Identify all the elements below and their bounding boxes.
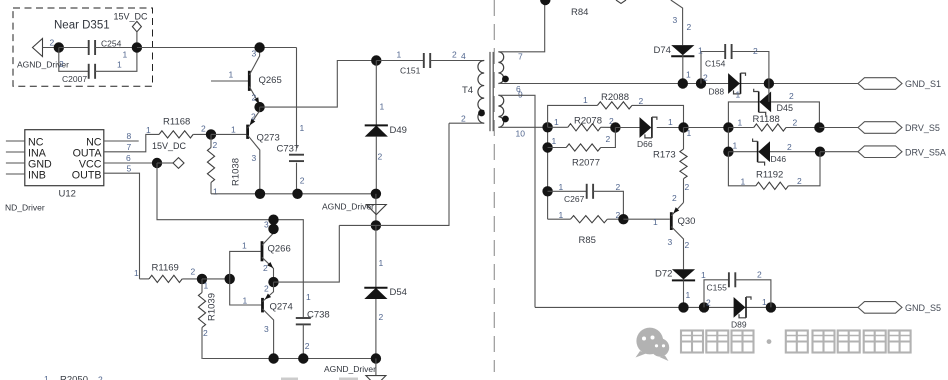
- svg-text:2: 2: [685, 182, 690, 192]
- svg-text:1: 1: [668, 117, 673, 127]
- wire to DRV_S5A port: [820, 151, 858, 153]
- svg-text:OUTB: OUTB: [72, 169, 102, 181]
- svg-text:2: 2: [251, 112, 256, 122]
- diode D88 zener: [709, 73, 746, 99]
- svg-text:C155: C155: [707, 283, 728, 293]
- capacitor C737: [277, 48, 305, 194]
- wire AGND rail upper: [211, 193, 376, 195]
- transistor Q30 PNP: [668, 193, 696, 269]
- svg-text:DRV_S5A: DRV_S5A: [905, 147, 946, 157]
- svg-text:2: 2: [191, 267, 196, 277]
- svg-text:R1169: R1169: [152, 263, 179, 274]
- wire T4 pin7 up: [498, 0, 544, 52]
- node Q266 collector (lower): [268, 224, 278, 234]
- svg-text:R1188: R1188: [753, 114, 780, 125]
- svg-text:1: 1: [686, 290, 691, 300]
- svg-text:D66: D66: [637, 139, 653, 149]
- diode D89 zener: [731, 297, 767, 330]
- node bus C267: [542, 182, 563, 197]
- node D46 row right: [815, 147, 825, 157]
- svg-text:C154: C154: [705, 59, 726, 69]
- svg-text:D45: D45: [777, 103, 794, 113]
- svg-text:R1039: R1039: [207, 293, 218, 321]
- ground AGND_Driver (in box): [17, 39, 69, 70]
- svg-text:1: 1: [397, 50, 402, 60]
- port GND_S5: [858, 302, 941, 314]
- isolation dashed line: [493, 0, 495, 372]
- diode D74: [654, 45, 695, 84]
- wire T4 pin9 to GND_S5 bus: [498, 95, 535, 307]
- svg-text:2: 2: [461, 113, 466, 123]
- svg-text:ND_Driver: ND_Driver: [5, 203, 45, 213]
- svg-text:1: 1: [379, 258, 384, 268]
- port DRV_S5A: [858, 146, 946, 158]
- svg-text:Q273: Q273: [257, 133, 280, 144]
- capacitor C254: [59, 39, 137, 60]
- node C155 pin1 on rail: [699, 298, 711, 313]
- wire emitters to C151 node: [260, 61, 377, 108]
- svg-text:D89: D89: [731, 320, 747, 330]
- capacitor C267: [548, 182, 624, 219]
- svg-text:1: 1: [583, 95, 588, 105]
- svg-text:U12: U12: [59, 189, 76, 200]
- svg-text:1: 1: [231, 125, 236, 135]
- svg-text:2: 2: [203, 328, 208, 338]
- svg-text:2: 2: [378, 152, 383, 162]
- svg-text:1: 1: [762, 297, 767, 307]
- svg-text:D88: D88: [709, 87, 725, 97]
- svg-text:3: 3: [673, 15, 678, 25]
- resistor R1188: [728, 114, 819, 131]
- svg-text:2: 2: [757, 270, 762, 280]
- node C154 pin2 on rail: [696, 73, 708, 89]
- resistor R1039: [198, 279, 217, 359]
- svg-text:1: 1: [686, 70, 691, 80]
- capacitor C738: [296, 292, 330, 359]
- resistor R2088: [548, 92, 684, 128]
- svg-text:R2077: R2077: [572, 158, 600, 169]
- transistor Q273 PNP: [211, 107, 280, 194]
- svg-text:R1038: R1038: [231, 158, 242, 186]
- svg-text:Q265: Q265: [259, 75, 282, 86]
- svg-text:2: 2: [379, 312, 384, 322]
- svg-text:3: 3: [264, 220, 269, 230]
- wire AGND to C254: [43, 47, 59, 49]
- svg-text:R2088: R2088: [601, 92, 629, 103]
- svg-text:1: 1: [653, 217, 658, 227]
- node D66/R173/R2088 junction: [678, 122, 688, 132]
- wire DRV row to R1188: [684, 127, 729, 129]
- svg-text:1: 1: [380, 102, 385, 112]
- svg-text:2: 2: [606, 134, 611, 144]
- svg-text:1: 1: [242, 241, 247, 251]
- node 15V rail junction: [132, 42, 142, 52]
- node base junction Q265/Q273: [206, 129, 218, 150]
- svg-text:Q274: Q274: [270, 302, 293, 313]
- svg-text:1: 1: [698, 46, 703, 56]
- svg-text:2: 2: [789, 91, 794, 101]
- svg-text:T4: T4: [462, 85, 473, 96]
- svg-text:D54: D54: [390, 287, 407, 298]
- node bus pin10/R2078: [542, 117, 559, 133]
- wire T4 pin2 lead: [449, 122, 484, 124]
- resistor R84 (cut off): [571, 0, 692, 45]
- transistor Q274 PNP: [243, 282, 293, 358]
- svg-text:2: 2: [213, 140, 218, 150]
- svg-text:2: 2: [685, 240, 690, 250]
- svg-text:R173: R173: [653, 150, 676, 161]
- svg-text:4: 4: [461, 51, 466, 61]
- node R84 pin (top edge): [540, 0, 550, 5]
- node D49 anode on AGND: [371, 189, 381, 199]
- svg-text:GND_S1: GND_S1: [905, 79, 941, 89]
- capacitor C151: [376, 50, 484, 76]
- wire 15V top rail: [137, 47, 297, 49]
- resistor R2050 (cut off): [44, 374, 103, 380]
- node D54 anode bottom: [371, 353, 381, 363]
- svg-text:1: 1: [213, 187, 218, 197]
- node Q266 collector (upper): [268, 215, 278, 225]
- power 15V_DC (mid): [152, 141, 187, 168]
- transistor Q266 NPN: [242, 220, 291, 283]
- svg-text:2: 2: [59, 59, 64, 69]
- wire GND_S5 rail: [535, 306, 858, 308]
- diode D72: [655, 269, 695, 308]
- svg-text:C267: C267: [564, 194, 585, 204]
- svg-text:3: 3: [668, 237, 673, 247]
- resistor R1192: [728, 152, 820, 190]
- svg-text:1: 1: [243, 295, 248, 305]
- svg-text:2: 2: [300, 176, 305, 186]
- wire to DRV_S5 port: [819, 127, 858, 129]
- transistor Q265 NPN: [211, 48, 282, 108]
- resistor R2078: [548, 116, 616, 131]
- node Q274 collector bottom: [268, 353, 278, 363]
- wire emitters to AGND rail2: [274, 225, 340, 282]
- svg-text:1: 1: [701, 270, 706, 280]
- svg-text:2: 2: [753, 46, 758, 56]
- svg-text:2: 2: [797, 176, 802, 186]
- svg-text:2: 2: [452, 50, 457, 60]
- svg-text:INB: INB: [28, 169, 46, 181]
- svg-text:1: 1: [554, 117, 559, 127]
- resistor R1169: [134, 263, 202, 283]
- svg-text:2: 2: [263, 263, 268, 273]
- svg-text:R85: R85: [579, 235, 596, 246]
- svg-text:1: 1: [306, 292, 311, 302]
- svg-text:2: 2: [672, 193, 677, 203]
- diode D54: [364, 225, 407, 358]
- node C254 pin2 junction: [50, 38, 65, 53]
- svg-text:2: 2: [703, 73, 708, 83]
- wire base rail vertical: [230, 251, 262, 305]
- resistor R1168: [146, 117, 211, 139]
- node C151/D49 junction: [371, 55, 381, 65]
- svg-text:D49: D49: [390, 125, 407, 136]
- svg-text:15V_DC: 15V_DC: [152, 141, 187, 151]
- svg-text:2: 2: [639, 96, 644, 106]
- diode D45 zener: [728, 84, 819, 128]
- capacitor C154: [698, 44, 769, 84]
- svg-text:C737: C737: [277, 144, 300, 155]
- diode D49: [365, 61, 407, 194]
- svg-text:2: 2: [793, 118, 798, 128]
- power 15V_DC (top): [114, 12, 149, 48]
- IC U12 gate driver: [6, 130, 104, 200]
- node D46 row left: [723, 141, 737, 157]
- svg-text:1: 1: [738, 118, 743, 128]
- watermark fragment bottom: [281, 378, 358, 380]
- node C738 pin2 bottom: [298, 353, 308, 363]
- capacitor C2007: [59, 48, 137, 85]
- svg-text:2: 2: [305, 341, 310, 351]
- svg-text:R1192: R1192: [756, 170, 783, 181]
- capacitor C155: [701, 270, 771, 308]
- svg-text:7: 7: [127, 142, 132, 152]
- node R85/C267/Q30 base: [618, 214, 628, 224]
- svg-text:1: 1: [134, 268, 139, 278]
- node R1188 pin1 junction: [723, 122, 733, 132]
- svg-text:1: 1: [559, 210, 564, 220]
- svg-text:9: 9: [518, 90, 523, 100]
- svg-text:2: 2: [706, 298, 711, 308]
- node C737 pin2 on AGND: [292, 189, 302, 199]
- svg-text:1: 1: [687, 128, 692, 138]
- svg-text:1: 1: [741, 176, 746, 186]
- svg-text:AGND_Driver: AGND_Driver: [322, 202, 374, 212]
- net label ND_Driver: [5, 203, 45, 213]
- svg-text:1: 1: [204, 281, 209, 291]
- node R1188 pin2 junction: [814, 122, 824, 132]
- wire U12 pin6 VCC: [104, 153, 157, 163]
- wire U12 pin5 OUTB down: [104, 163, 140, 279]
- port DRV_S5: [858, 122, 940, 134]
- svg-text:3: 3: [252, 153, 257, 163]
- watermark wechat logo and text: [636, 328, 911, 361]
- node R1169/R1039 junction: [197, 274, 209, 291]
- wire T4 pin2 rail: [339, 123, 449, 225]
- svg-text:8: 8: [127, 131, 132, 141]
- svg-text:1: 1: [559, 182, 564, 192]
- svg-text:C254: C254: [101, 39, 122, 49]
- svg-text:1: 1: [117, 60, 122, 70]
- svg-text:2: 2: [687, 22, 692, 32]
- node Q273 collector on AGND: [255, 189, 265, 199]
- wire T4 pin10 to bus: [498, 126, 547, 128]
- resistor R173: [653, 128, 692, 203]
- diode D66 zener: [615, 117, 683, 149]
- svg-text:Q30: Q30: [678, 216, 696, 227]
- ground AGND_Driver (upper): [322, 194, 386, 226]
- svg-text:1: 1: [44, 374, 49, 380]
- wire base to Q30: [623, 217, 669, 227]
- ground AGND_Driver (bottom): [324, 359, 386, 380]
- dashed box Near D351: [13, 8, 153, 86]
- wire 15V to C738: [157, 163, 303, 319]
- svg-text:2: 2: [201, 124, 206, 134]
- svg-text:15V_DC: 15V_DC: [114, 12, 149, 22]
- svg-text:2: 2: [616, 182, 621, 192]
- node Q266/Q274 emitters: [268, 277, 278, 287]
- node bus R2077: [542, 136, 556, 153]
- wire secondary bus: [547, 127, 549, 219]
- node D74 on rail: [678, 78, 688, 88]
- svg-text:GND_S5: GND_S5: [905, 303, 941, 313]
- svg-text:2: 2: [50, 38, 55, 48]
- svg-text:AGND_Driver: AGND_Driver: [324, 364, 376, 374]
- svg-text:2: 2: [787, 142, 792, 152]
- svg-text:D46: D46: [771, 154, 787, 164]
- svg-text:1: 1: [146, 125, 151, 135]
- node C154 pin1 on rail: [764, 78, 774, 88]
- svg-text:C2007: C2007: [62, 74, 87, 84]
- transformer T4: [461, 51, 525, 139]
- node C155 pin2 on rail: [766, 302, 776, 312]
- svg-text:2: 2: [98, 375, 103, 380]
- svg-text:2: 2: [252, 93, 257, 103]
- resistor R85: [548, 210, 624, 246]
- svg-text:6: 6: [126, 153, 131, 163]
- svg-text:1: 1: [552, 136, 557, 146]
- svg-text:7: 7: [518, 52, 523, 62]
- node base rail Q266/Q274: [225, 274, 235, 284]
- node Q265 collector: [254, 42, 264, 52]
- node Q265/Q273 emitters: [254, 102, 264, 112]
- svg-text:D72: D72: [655, 269, 672, 280]
- wire AGND rail bottom: [203, 358, 376, 360]
- node AGND/T4 pin2 rail: [371, 220, 381, 230]
- svg-text:Q266: Q266: [268, 243, 291, 254]
- wire DRV to DRV_S5A row: [727, 128, 729, 152]
- svg-text:1: 1: [300, 123, 305, 133]
- svg-text:1: 1: [733, 141, 738, 151]
- svg-text:C738: C738: [307, 310, 330, 321]
- svg-text:Near D351: Near D351: [54, 20, 110, 32]
- port GND_S1: [858, 78, 941, 90]
- svg-text:R84: R84: [571, 7, 588, 18]
- svg-text:C151: C151: [400, 66, 421, 76]
- diode D46 zener: [728, 139, 820, 166]
- svg-text:R2078: R2078: [574, 116, 602, 127]
- svg-text:5: 5: [127, 163, 132, 173]
- svg-text:R1168: R1168: [163, 117, 190, 128]
- svg-text:1: 1: [736, 90, 741, 100]
- svg-text:D74: D74: [654, 45, 671, 56]
- svg-text:1: 1: [123, 50, 128, 60]
- svg-text:R2050: R2050: [60, 375, 88, 380]
- resistor R1038: [207, 134, 241, 196]
- svg-text:10: 10: [516, 129, 526, 139]
- wire junction to base rail: [202, 278, 230, 280]
- wire GND_S1 rail: [498, 83, 858, 85]
- svg-text:3: 3: [264, 324, 269, 334]
- node R2078/D66/R2077 junction: [610, 122, 620, 132]
- node D72 on rail: [678, 302, 688, 312]
- wire U12 pin8 NC stub: [104, 131, 139, 141]
- wire U12 pin7 OUTA to R1168: [104, 134, 159, 152]
- svg-text:1: 1: [229, 70, 234, 80]
- resistor R2077: [548, 128, 616, 169]
- svg-text:2: 2: [264, 284, 269, 294]
- svg-text:DRV_S5: DRV_S5: [905, 123, 940, 133]
